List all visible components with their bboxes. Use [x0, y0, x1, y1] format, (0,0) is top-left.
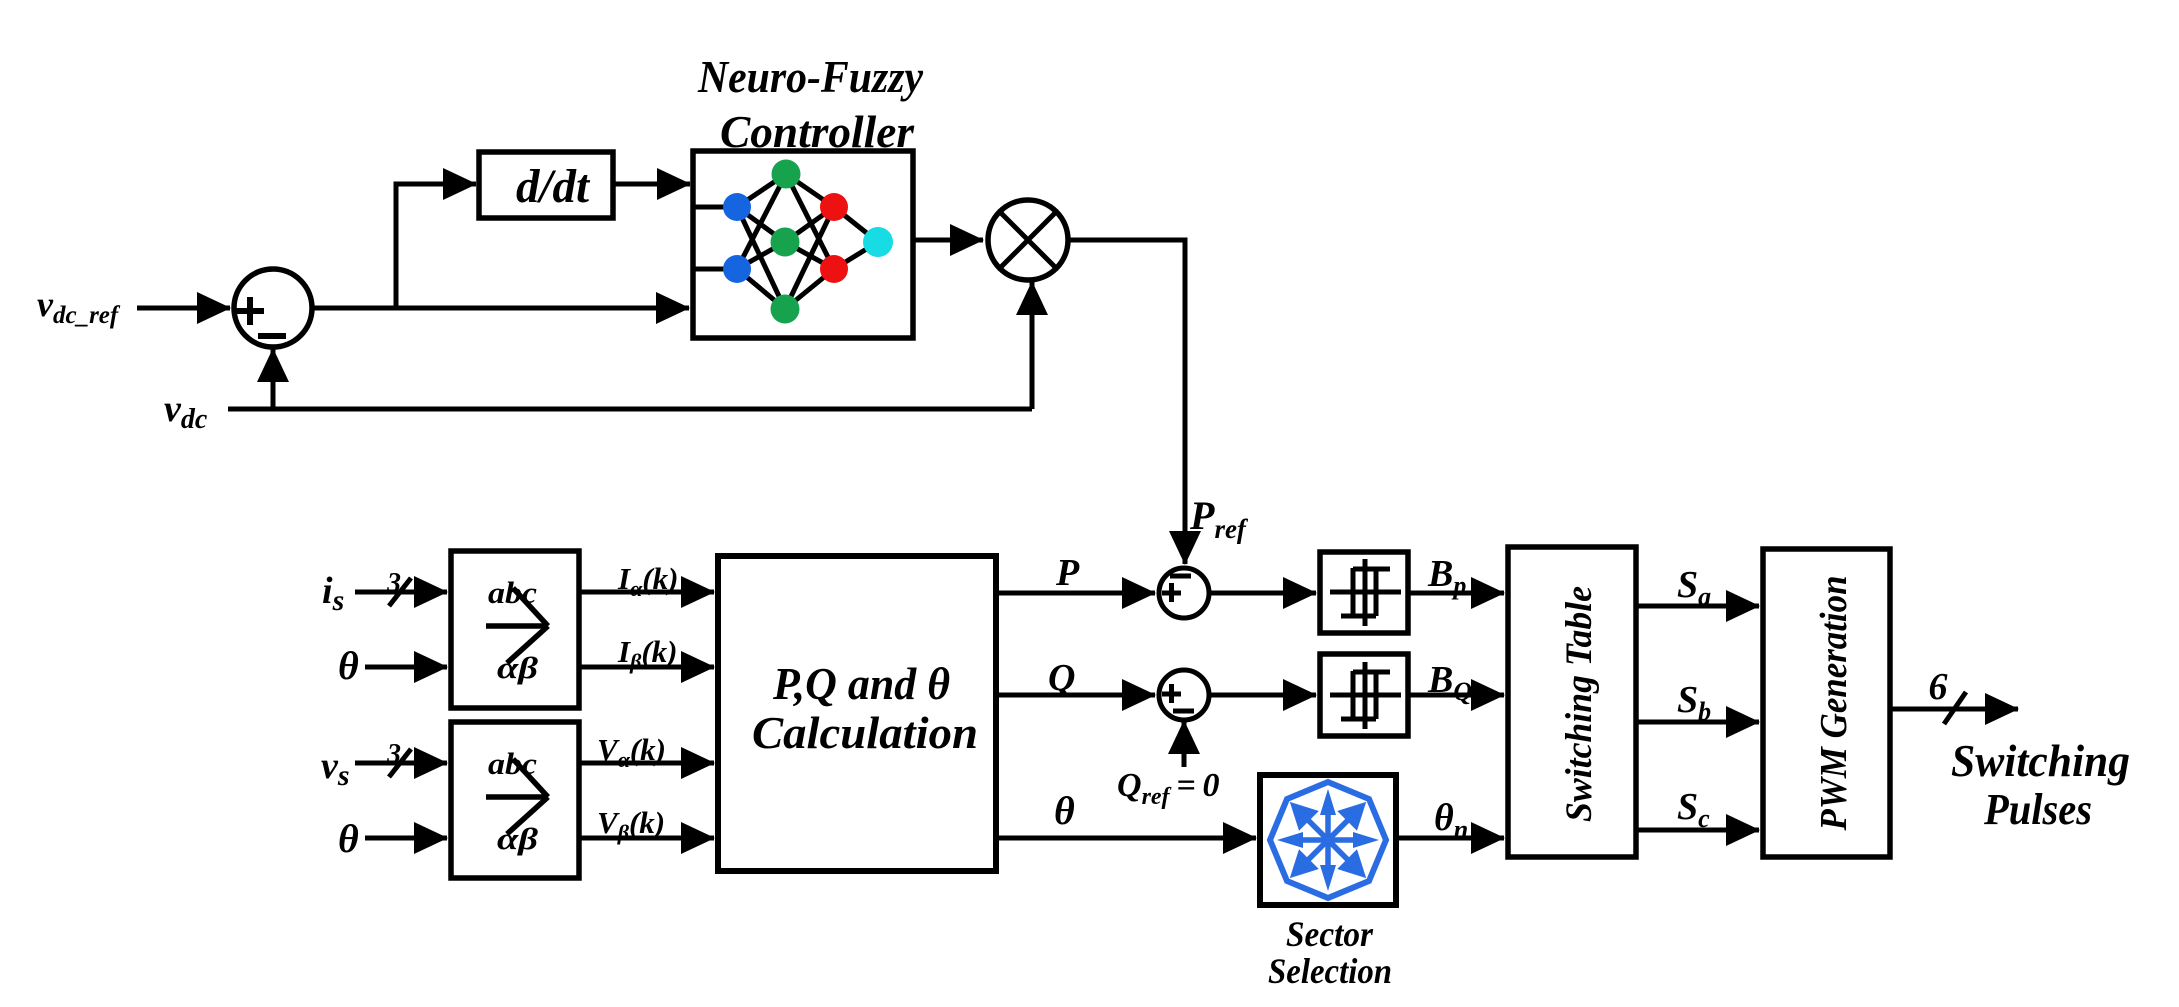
svg-text:θ: θ: [1054, 788, 1075, 833]
wire theta output: [996, 836, 1256, 841]
svg-text:Iα(k): Iα(k): [617, 561, 678, 601]
wire v_dc_ref to summing junction: [137, 306, 230, 311]
wire I_alpha: [579, 590, 714, 595]
summing junction S1: [234, 269, 312, 347]
block U1 Neuro-Fuzzy Controller: [693, 151, 913, 338]
svg-text:3: 3: [386, 568, 401, 599]
svg-text:P: P: [1055, 552, 1080, 594]
wire i_s input: [355, 590, 447, 595]
wire Q output: [996, 693, 1155, 698]
wire S2 to hysteresis H1: [1211, 591, 1316, 596]
wire B_p: [1408, 591, 1504, 596]
wire V_alpha: [579, 761, 714, 766]
wire S_b: [1636, 720, 1759, 725]
node out2 red: [820, 255, 848, 283]
svg-text:Selection: Selection: [1268, 951, 1392, 991]
block hysteresis H1: [1320, 552, 1408, 633]
wire I_beta: [579, 665, 714, 670]
node final cyan: [863, 227, 893, 257]
svg-text:Sector: Sector: [1286, 914, 1374, 954]
svg-text:Q: Q: [1048, 657, 1075, 699]
svg-text:3: 3: [386, 739, 401, 770]
wire S_a: [1636, 604, 1759, 609]
block d/dt: [479, 152, 613, 218]
svg-text:θ: θ: [338, 816, 359, 861]
svg-text:6: 6: [1929, 666, 1948, 708]
block hysteresis H2: [1320, 654, 1408, 736]
wire v_dc up into S1: [271, 349, 276, 409]
wire B_Q: [1408, 693, 1504, 698]
node input1 blue: [723, 193, 751, 221]
block P,Q and theta Calculation: [718, 556, 996, 871]
slash 3 on v_s: [389, 749, 411, 777]
neural net edges: [693, 174, 878, 309]
svg-text:Calculation: Calculation: [752, 707, 978, 758]
wire output switching pulses: [1890, 707, 2018, 712]
wire d/dt to NFC: [613, 182, 690, 187]
block abc-alphabeta T1: [451, 551, 579, 708]
wire multiplier output down to P summing junction: [1068, 240, 1185, 564]
node hidden1 green: [772, 160, 801, 189]
wire NFC to multiplier: [913, 238, 983, 243]
svg-text:Pulses: Pulses: [1983, 785, 2092, 834]
summing junction S2: [1159, 568, 1209, 618]
svg-text:d/dt: d/dt: [516, 160, 591, 213]
wire V_beta: [579, 836, 714, 841]
slash 3 on i_s: [389, 578, 411, 606]
svg-text:Iβ(k): Iβ(k): [617, 634, 678, 674]
wire v_dc up into multiplier: [1030, 282, 1035, 409]
wire S1 output to NFC lower input: [312, 306, 689, 311]
node input2 blue: [723, 255, 751, 283]
node hidden2 green: [771, 228, 800, 257]
svg-text:θ: θ: [338, 643, 359, 688]
multiplier M1: [988, 200, 1068, 280]
sector selection compass icon: [1270, 782, 1386, 898]
svg-text:Neuro-Fuzzy: Neuro-Fuzzy: [697, 51, 923, 102]
summing junction S3: [1159, 670, 1209, 720]
node out1 red: [820, 193, 848, 221]
block Sector Selection: [1260, 775, 1396, 905]
wire v_dc feedback: [228, 407, 1032, 412]
svg-text:PWM Generation: PWM Generation: [1813, 576, 1855, 832]
wire S3 to hysteresis H2: [1211, 693, 1316, 698]
svg-text:Switching Table: Switching Table: [1559, 586, 1600, 822]
wire v_s input: [355, 761, 447, 766]
wire P output: [996, 591, 1155, 596]
wire theta1: [365, 665, 447, 670]
svg-text:Vβ(k): Vβ(k): [597, 805, 665, 845]
svg-text:P,Q and θ: P,Q and θ: [772, 658, 950, 709]
block Switching Table: [1508, 547, 1636, 857]
node hidden3 green: [771, 295, 800, 324]
block PWM Generation: [1763, 549, 1890, 857]
wire Q_ref up into S3: [1182, 721, 1187, 767]
slash 6 on output: [1944, 692, 1966, 724]
block abc-alphabeta T2: [451, 722, 579, 878]
svg-text:Vα(k): Vα(k): [597, 732, 666, 772]
wire theta2: [365, 836, 447, 841]
wire theta_n: [1396, 836, 1504, 841]
wire S_c: [1636, 828, 1759, 833]
svg-text:Switching: Switching: [1951, 736, 2130, 786]
wire branch up to d/dt: [396, 184, 476, 308]
